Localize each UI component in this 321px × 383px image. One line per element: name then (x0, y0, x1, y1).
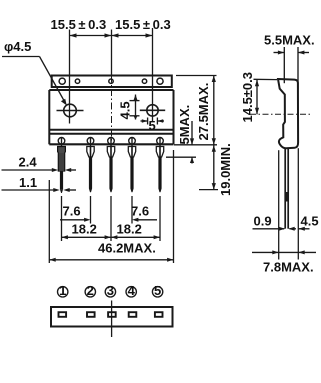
extension / package centerline (111, 30, 113, 76)
side view body outline (278, 79, 298, 148)
front view: main body (49, 90, 173, 144)
svg-text:φ4.5: φ4.5 (4, 39, 31, 54)
svg-text:4.5: 4.5 (118, 101, 133, 119)
bottom view circled pin number 1 (58, 283, 68, 298)
extension line left hole center (69, 30, 71, 124)
extension line side back face (278, 150, 280, 259)
bottom view pad 5 (155, 312, 163, 317)
dimension 5.5 arrows (274, 47, 310, 90)
pin 2 (87, 147, 94, 193)
pin 5 (156, 147, 163, 193)
extension line body top right (176, 75, 217, 77)
strip hole A (59, 78, 65, 84)
svg-text:7.8MAX.: 7.8MAX. (263, 260, 314, 275)
bottom view pad 2 (87, 312, 95, 317)
arrowheads 15.5 dims (70, 33, 153, 37)
svg-text:7.6: 7.6 (63, 204, 81, 219)
svg-text:5.5MAX.: 5.5MAX. (264, 33, 315, 48)
pin 4 top circle (129, 137, 136, 146)
pin 4 (128, 147, 135, 193)
svg-text:5: 5 (149, 118, 156, 133)
svg-text:18.2: 18.2 (72, 222, 97, 237)
svg-text:27.5MAX.: 27.5MAX. (196, 83, 211, 141)
extension line right hole center (152, 28, 154, 122)
strip hole B (75, 79, 79, 83)
leader arrowhead (61, 99, 67, 106)
svg-text:5MAX.: 5MAX. (177, 105, 192, 145)
bottom view pad 1 (59, 312, 67, 317)
svg-text:4: 4 (128, 283, 136, 298)
side view lead (285, 148, 288, 229)
leader line φ4.5 (2, 57, 65, 102)
svg-text:1: 1 (59, 283, 66, 298)
svg-text:14.5±0.3: 14.5±0.3 (240, 72, 255, 123)
svg-text:1.1: 1.1 (19, 175, 37, 190)
strip hole E (157, 78, 163, 84)
svg-text:7.6: 7.6 (131, 204, 149, 219)
pin 1 top circle (58, 137, 65, 146)
svg-text:46.2MAX.: 46.2MAX. (98, 241, 156, 256)
svg-text:4.5: 4.5 (301, 213, 319, 228)
pin 3 (107, 147, 114, 193)
extension line side front face (297, 148, 299, 259)
svg-text:3: 3 (107, 283, 114, 298)
dimension line 15.5 top (70, 35, 153, 37)
bottom view body (51, 307, 173, 327)
svg-text:19.0MIN.: 19.0MIN. (218, 143, 233, 196)
bottom view circled pin number 4 (126, 283, 136, 298)
extension line side top left (254, 78, 278, 80)
bottom view pad 3 (108, 312, 116, 317)
extension lines 46.2 (49, 150, 173, 263)
svg-text:2: 2 (87, 283, 94, 298)
dimension 7.8MAX. (252, 251, 316, 253)
strip hole D (142, 79, 146, 83)
svg-text:2.4: 2.4 (19, 155, 38, 170)
extension line pin tips right (199, 189, 218, 191)
bottom view circled pin number 5 (152, 283, 162, 298)
svg-text:15.5 ± 0.3: 15.5 ± 0.3 (51, 17, 107, 32)
extension lines below pins (62, 196, 161, 241)
svg-text:5: 5 (154, 283, 161, 298)
svg-text:18.2: 18.2 (117, 222, 142, 237)
mounting hole left φ4.5 (57, 104, 84, 117)
front view: top mounting strip (49, 76, 173, 91)
bottom view pad 4 (129, 312, 137, 317)
hole centerline side view (250, 113, 311, 115)
svg-text:15.5 ± 0.3: 15.5 ± 0.3 (115, 17, 171, 32)
pin 1 (sectioned lead) (58, 147, 66, 194)
pin 5 top circle (157, 137, 164, 146)
svg-text:0.9: 0.9 (254, 213, 272, 228)
pin 2 top circle (87, 137, 94, 146)
pin 3 top circle (108, 137, 115, 146)
mounting hole right (140, 105, 165, 116)
bottom view circled pin number 3 (105, 283, 115, 298)
bottom view circled pin number 2 (85, 283, 95, 298)
strip hole C (109, 79, 113, 83)
extension line body bottom right (174, 144, 217, 146)
bottom view centerline (111, 301, 113, 338)
